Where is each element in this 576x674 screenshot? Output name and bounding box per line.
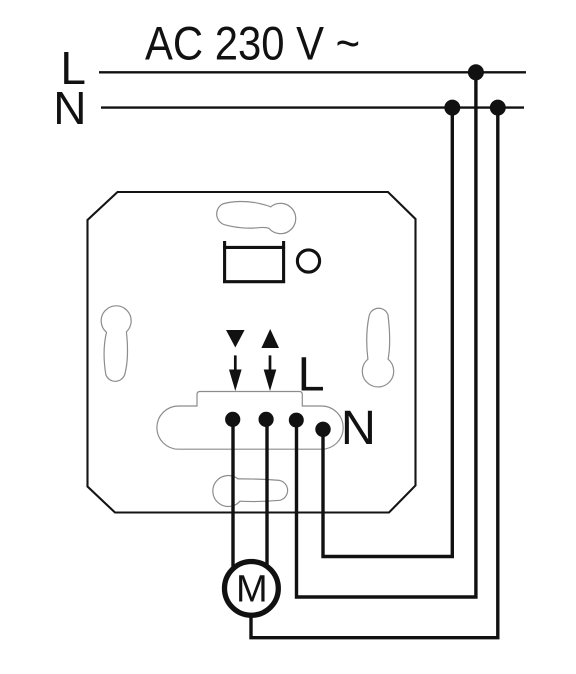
mounting slot top xyxy=(217,201,296,233)
terminal dot 2 xyxy=(259,412,274,427)
motor M xyxy=(225,562,279,616)
svg-text:M: M xyxy=(236,568,268,610)
wire terminal 2 to motor xyxy=(265,419,268,566)
fixing claw rectangle xyxy=(223,241,285,283)
mounting slot left xyxy=(101,306,131,381)
terminal dot 4 xyxy=(315,422,330,437)
wire terminal 3 to L line xyxy=(297,72,476,597)
wire N line xyxy=(101,106,524,108)
junction dot 1 on N line xyxy=(444,100,460,116)
device body xyxy=(88,192,416,513)
junction dot 2 on N line xyxy=(490,100,506,116)
button symbol up xyxy=(261,329,279,348)
indicator circle xyxy=(297,250,319,272)
wire terminal 4 to N line xyxy=(323,108,452,557)
terminal block xyxy=(157,392,343,450)
arrow into terminal 1 xyxy=(234,355,237,372)
wire motor to N line xyxy=(251,108,498,638)
svg-text:N: N xyxy=(341,401,376,455)
mounting slot bottom xyxy=(213,476,288,507)
svg-text:N: N xyxy=(53,82,86,134)
junction dot on L line xyxy=(468,64,484,80)
mounting slot right xyxy=(362,308,393,387)
svg-text:AC 230 V ~: AC 230 V ~ xyxy=(145,17,360,70)
terminal dot 3 xyxy=(289,413,304,428)
arrow into terminal 2 xyxy=(269,355,272,372)
wire terminal 1 to motor xyxy=(231,419,234,567)
wire L line xyxy=(99,71,526,73)
terminal dot 1 xyxy=(225,412,240,427)
button symbol down xyxy=(226,330,245,348)
